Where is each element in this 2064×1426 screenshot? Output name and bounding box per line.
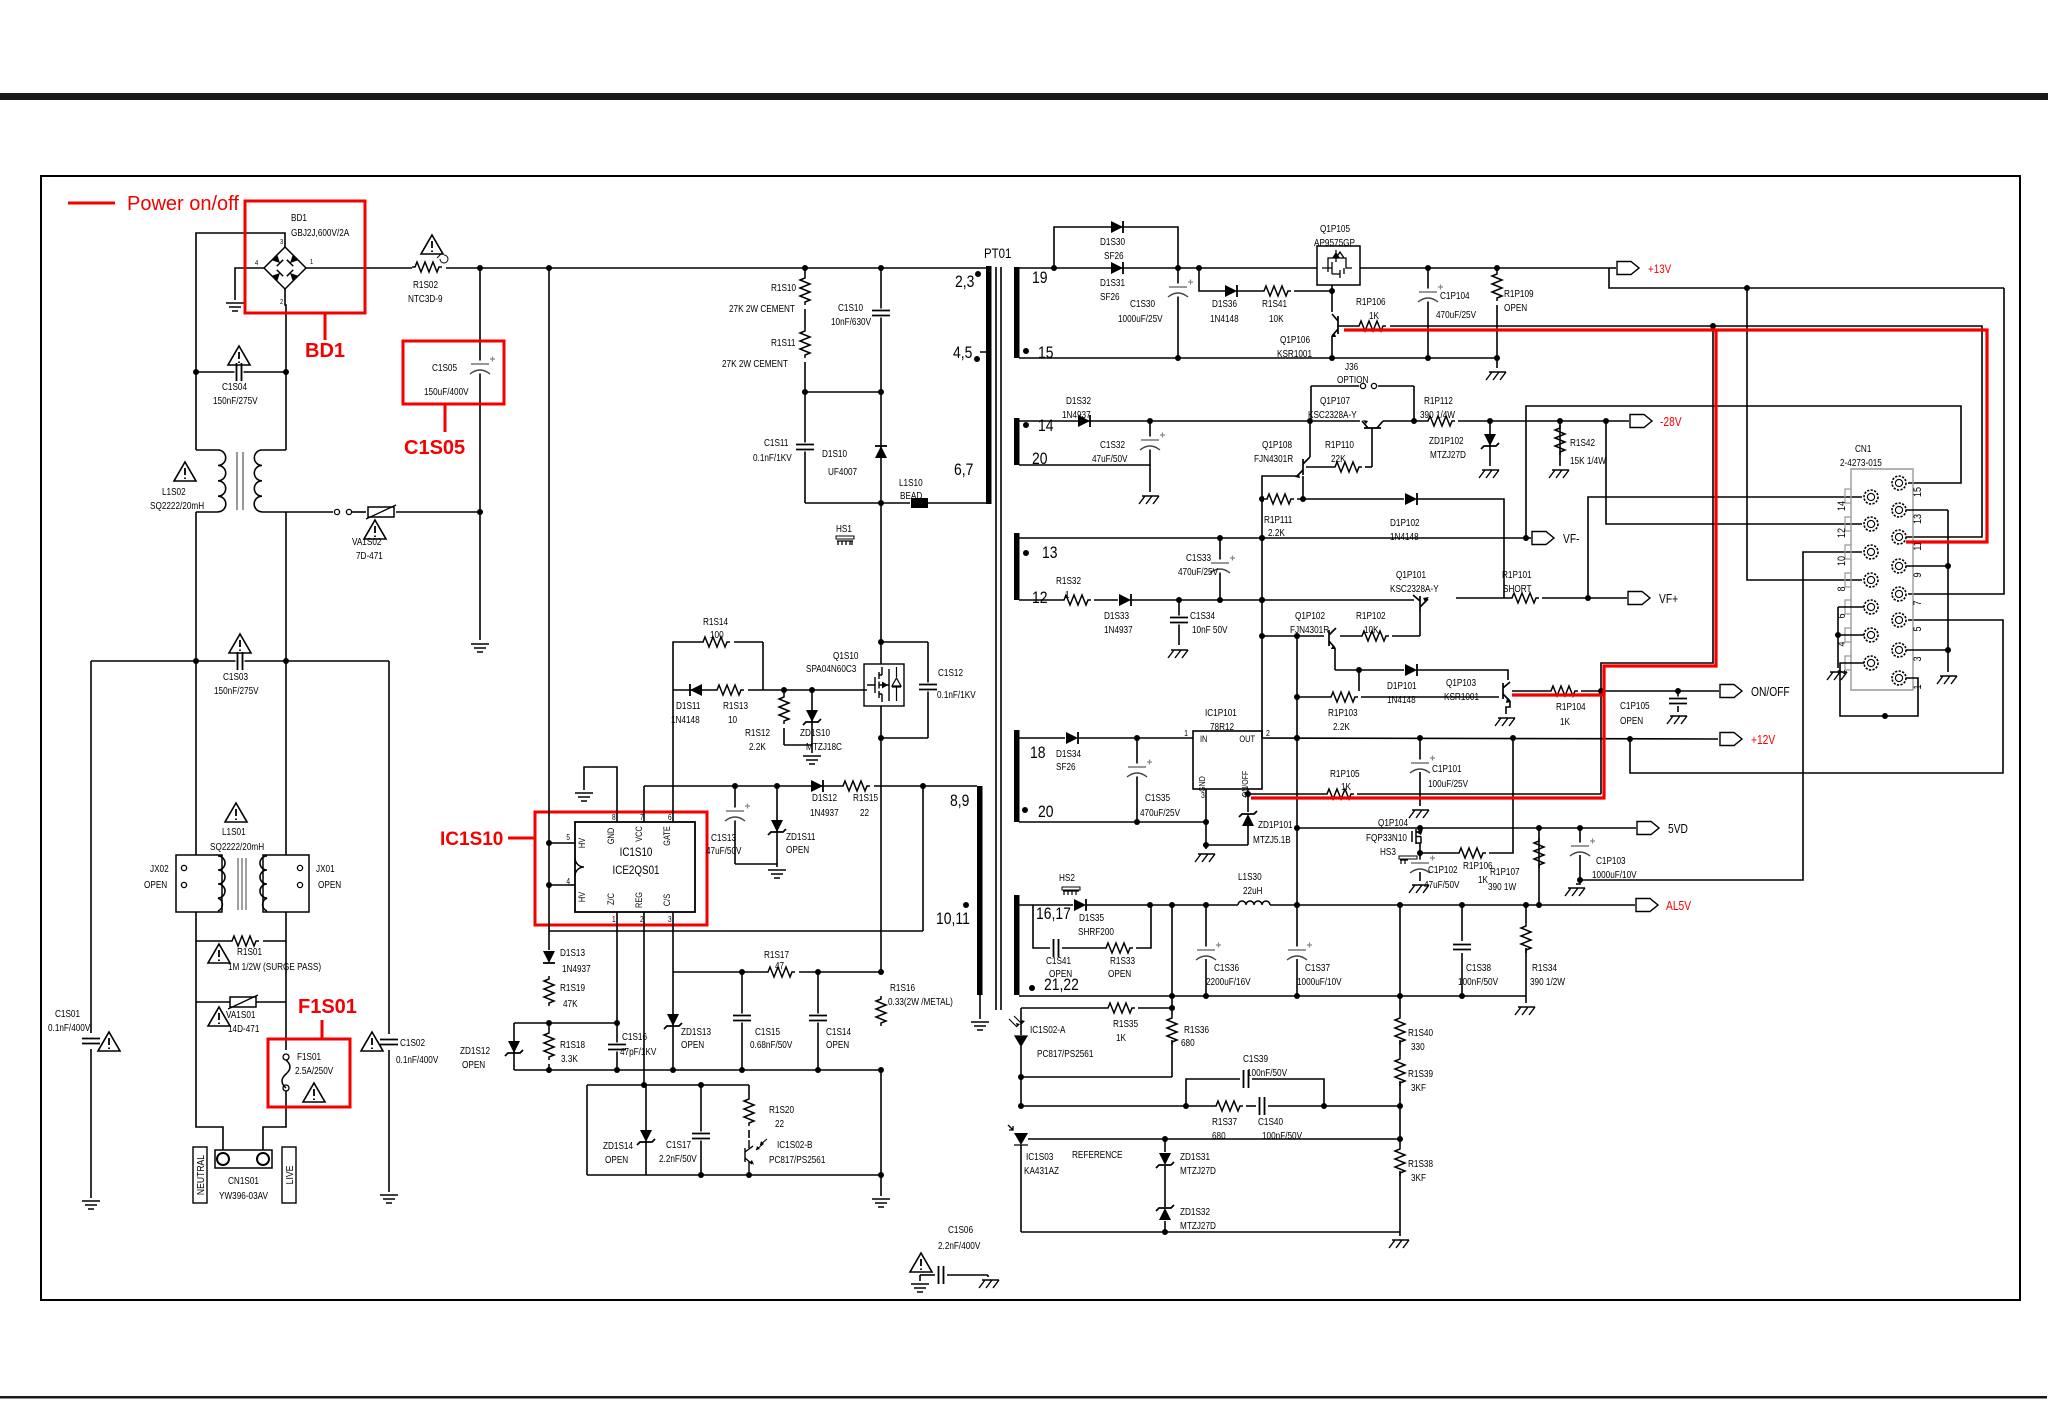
jumper J36 OPTION xyxy=(1311,385,1359,387)
red highlight: Q1P103 emitter stub xyxy=(1512,693,1604,696)
svg-text:OPEN: OPEN xyxy=(681,1039,704,1050)
svg-text:CN1S01: CN1S01 xyxy=(228,1175,259,1186)
svg-text:R1S40: R1S40 xyxy=(1408,1027,1433,1038)
junctions OUT line xyxy=(1294,735,1300,741)
svg-text:470uF/25V: 470uF/25V xyxy=(1178,566,1219,577)
C1S39 bypass loop xyxy=(1186,1079,1240,1106)
junction Q1P104 source xyxy=(1417,850,1423,856)
wire: R1S40 column xyxy=(1399,905,1401,1024)
wire: C1S40 lead xyxy=(1268,1105,1400,1107)
svg-text:22uH: 22uH xyxy=(1243,885,1263,896)
svg-text:VA1S01: VA1S01 xyxy=(226,1009,255,1020)
wire: C1S38 lead xyxy=(1461,953,1463,996)
junctions 5V line xyxy=(1147,902,1153,908)
wire: R1S18 column xyxy=(548,1023,550,1070)
wire: R1S12 ZD1S10 bottom xyxy=(784,745,812,753)
svg-text:150uF/400V: 150uF/400V xyxy=(424,386,469,397)
svg-text:HS1: HS1 xyxy=(836,523,852,534)
svg-text:UF4007: UF4007 xyxy=(828,466,857,477)
wire: C1P105 column xyxy=(1677,691,1679,697)
svg-text:D1P101: D1P101 xyxy=(1387,680,1417,691)
wire: Q1P108 base line xyxy=(1306,466,1333,468)
svg-text:SQ2222/20mH: SQ2222/20mH xyxy=(150,500,204,511)
wire: Q1P107 line xyxy=(1383,420,1426,422)
warning triangle L1S01 xyxy=(225,803,247,822)
ground fb xyxy=(1389,1240,1409,1248)
ground C1P102 xyxy=(1409,885,1429,893)
junction 20b xyxy=(1134,819,1140,825)
svg-text:OPEN: OPEN xyxy=(144,879,167,890)
wire: 19 line xyxy=(1019,267,1317,269)
svg-text:0.68nF/50V: 0.68nF/50V xyxy=(750,1039,793,1050)
svg-text:C1S12: C1S12 xyxy=(938,667,963,678)
svg-text:OPEN: OPEN xyxy=(786,844,809,855)
svg-text:OPEN: OPEN xyxy=(318,879,341,890)
wire: D1S36 branch xyxy=(1199,268,1225,291)
svg-text:C1P105: C1P105 xyxy=(1620,700,1650,711)
warning triangle L1S02 xyxy=(174,462,196,481)
resistor R1P101 xyxy=(1509,592,1543,604)
junctions C1S03 xyxy=(193,658,199,664)
wire: ZD1S12 column xyxy=(513,1023,515,1070)
wire: C1P101 column xyxy=(1419,738,1421,760)
wire: left outer rail b xyxy=(90,1049,92,1198)
svg-text:MTZJ5.1B: MTZJ5.1B xyxy=(1253,834,1291,845)
junction ON/OFF xyxy=(1598,688,1604,694)
svg-text:R1S41: R1S41 xyxy=(1262,298,1287,309)
legend: Power on/off xyxy=(68,202,115,205)
svg-text:1: 1 xyxy=(310,259,314,267)
svg-text:2.2K: 2.2K xyxy=(1333,721,1350,732)
svg-text:1K: 1K xyxy=(1560,716,1570,727)
warning triangle C1S06 xyxy=(910,1253,932,1272)
junction source node xyxy=(878,735,884,741)
svg-text:8: 8 xyxy=(1836,586,1848,591)
wire: snubber bottom to PT01 xyxy=(805,502,910,504)
svg-text:D1S30: D1S30 xyxy=(1100,236,1125,247)
svg-text:C1S17: C1S17 xyxy=(666,1139,691,1150)
svg-text:27K 2W CEMENT: 27K 2W CEMENT xyxy=(729,303,795,314)
capacitor C1S36 xyxy=(1194,947,1218,960)
wire: R1S40-R1S39 link xyxy=(1399,1040,1401,1065)
wire: onoff right rail xyxy=(1906,326,1982,537)
svg-text:OPEN: OPEN xyxy=(605,1154,628,1165)
svg-text:R1S35: R1S35 xyxy=(1113,1018,1138,1029)
wire: pin10 riser xyxy=(1580,552,1862,880)
svg-text:9: 9 xyxy=(1912,572,1924,577)
svg-text:VF+: VF+ xyxy=(1659,593,1678,606)
wire: right outer rail xyxy=(388,661,390,1034)
svg-text:OUT: OUT xyxy=(1239,734,1255,744)
wire: HV rail x549 xyxy=(548,267,550,950)
ground sense xyxy=(872,1199,890,1207)
PT01 secondary bar 16,17/21,22 xyxy=(1014,895,1020,995)
warning triangle VA1S02 xyxy=(364,520,386,539)
svg-text:47uF/50V: 47uF/50V xyxy=(1092,453,1128,464)
svg-text:4,5: 4,5 xyxy=(953,344,972,363)
wire: ZD1S10 column xyxy=(811,690,813,745)
svg-text:6,7: 6,7 xyxy=(954,461,973,480)
wire: Q1P104 source down xyxy=(1419,843,1421,861)
wire: R1P106 line xyxy=(1420,852,1457,854)
svg-text:0.1nF/400V: 0.1nF/400V xyxy=(396,1054,439,1065)
svg-text:-28V: -28V xyxy=(1660,416,1682,429)
svg-text:R1S02: R1S02 xyxy=(413,279,438,290)
wire: zc vertical xyxy=(922,787,924,931)
svg-text:47K: 47K xyxy=(563,998,578,1009)
inductor L1S30 xyxy=(1238,901,1270,905)
warning triangle C1S04 xyxy=(228,346,250,365)
red highlight: on/off to CN1 pin11 xyxy=(1344,330,1987,542)
wire: C1S37 column xyxy=(1296,905,1298,947)
svg-text:R1P103: R1P103 xyxy=(1328,707,1358,718)
svg-text:R1S37: R1S37 xyxy=(1212,1116,1237,1127)
svg-text:L1S02: L1S02 xyxy=(162,486,186,497)
capacitor C1P105 xyxy=(1668,697,1688,706)
diode D1S11 xyxy=(690,684,702,696)
junction pin4 rail xyxy=(1835,632,1841,638)
resistor R1S17 xyxy=(765,966,799,978)
junction C1S35 top xyxy=(1134,735,1140,741)
svg-text:R1P106: R1P106 xyxy=(1463,860,1493,871)
varistor VA1S02 xyxy=(368,507,394,517)
resistor R1S39 xyxy=(1394,1056,1406,1090)
svg-text:4: 4 xyxy=(255,260,259,268)
svg-text:Q1P101: Q1P101 xyxy=(1396,569,1426,580)
wire: right rail below L1S01 xyxy=(285,912,287,1050)
diode D1S31 xyxy=(1111,262,1123,274)
svg-text:2: 2 xyxy=(640,914,644,924)
red box F1S01 xyxy=(268,1039,350,1107)
svg-text:BEAD: BEAD xyxy=(900,490,923,501)
regulator IC1P101 78R12 xyxy=(1193,731,1262,789)
capacitor C1S13 xyxy=(723,808,747,821)
zener ZD1S14 xyxy=(640,1130,652,1142)
wire: C1S06 left xyxy=(920,1274,935,1276)
wire: OUT line +12V xyxy=(1262,738,1718,739)
svg-text:OPEN: OPEN xyxy=(826,1039,849,1050)
junctions 5VD line xyxy=(1417,825,1423,831)
svg-text:1000uF/10V: 1000uF/10V xyxy=(1297,976,1342,987)
capacitor C1S30 xyxy=(1166,284,1190,297)
junctions reg bottom xyxy=(698,1172,704,1178)
svg-text:VA1S02: VA1S02 xyxy=(352,536,381,547)
svg-text:680: 680 xyxy=(1181,1037,1195,1048)
capacitor C1S02 xyxy=(379,1038,399,1047)
wire: 19 line b xyxy=(1360,267,1609,269)
svg-text:R1S42: R1S42 xyxy=(1570,437,1595,448)
ground C1S06 left xyxy=(911,1284,929,1292)
ground below C1S05 rail xyxy=(471,644,489,652)
wire: ZD1S11 column xyxy=(776,786,778,864)
svg-text:390 1/2W: 390 1/2W xyxy=(1530,976,1565,987)
dot sec 2122 xyxy=(1029,985,1035,991)
wire: aux winding to ground xyxy=(979,995,981,1019)
wire: pin8 riser xyxy=(1747,288,1862,580)
svg-text:8: 8 xyxy=(612,812,616,822)
wire: reg top line xyxy=(587,1084,749,1086)
resistor R1S12 xyxy=(778,694,790,728)
capacitor C1S32 xyxy=(1138,437,1162,450)
svg-text:C1S04: C1S04 xyxy=(222,381,247,392)
ground C1P103 xyxy=(1565,888,1585,896)
red highlight: on/off branch to primary xyxy=(1251,330,1716,798)
heatsink HS2 symbol xyxy=(1063,891,1079,895)
svg-text:1N4148: 1N4148 xyxy=(1210,313,1239,324)
wire: R1P103 to Q1P103 base xyxy=(1361,696,1499,698)
PT01 secondary bar 19/15 xyxy=(1014,267,1020,358)
ground C1S02 xyxy=(380,1195,398,1203)
junctions ref line xyxy=(1162,1136,1168,1142)
wire: bridge top to left rail xyxy=(196,233,285,450)
capacitor C1S05 xyxy=(468,361,492,374)
svg-text:22: 22 xyxy=(775,1118,784,1129)
wire: VF- arrow feed xyxy=(1526,537,1531,539)
NEUTRAL tag xyxy=(193,1147,207,1203)
wire: +13V to right rail xyxy=(1609,268,2004,288)
resistor R1S19 xyxy=(543,976,555,1010)
output arrow VF- xyxy=(1532,532,1554,545)
wire: R1P102 to Q1P101 base xyxy=(1392,635,1420,637)
wire: C1S06 right down xyxy=(987,1275,989,1277)
ground under ZD1S11 xyxy=(768,870,786,878)
red box BD1 xyxy=(245,201,365,313)
svg-text:8,9: 8,9 xyxy=(950,792,969,811)
svg-text:0.1nF/1KV: 0.1nF/1KV xyxy=(937,689,976,700)
svg-text:FJN4301R: FJN4301R xyxy=(1254,453,1293,464)
svg-text:3: 3 xyxy=(668,914,672,924)
wire: R1P103 line xyxy=(1297,696,1329,698)
capacitor C1S39 xyxy=(1242,1069,1251,1089)
svg-text:MTZJ27D: MTZJ27D xyxy=(1430,449,1466,460)
svg-text:PC817/PS2561: PC817/PS2561 xyxy=(1037,1048,1093,1059)
resistor R1P104 xyxy=(1548,685,1582,697)
wire: R1S32 to D1S33 xyxy=(1094,599,1118,601)
svg-text:CN1: CN1 xyxy=(1855,443,1871,454)
svg-text:MTZJ27D: MTZJ27D xyxy=(1180,1165,1216,1176)
wire: zd chain b xyxy=(1164,1166,1166,1207)
capacitor C1S01 xyxy=(81,1037,101,1046)
svg-text:D1S13: D1S13 xyxy=(560,947,585,958)
svg-text:1: 1 xyxy=(612,914,616,924)
svg-text:16,17: 16,17 xyxy=(1036,905,1071,924)
wire: 12 line b xyxy=(1131,599,1414,601)
svg-text:R1S33: R1S33 xyxy=(1110,955,1135,966)
svg-text:R1P111: R1P111 xyxy=(1264,514,1292,525)
junctions snubber xyxy=(802,389,808,395)
wire: Q1P101 base down xyxy=(1419,612,1421,636)
warning triangle C1S03 xyxy=(229,634,251,653)
svg-text:HV: HV xyxy=(577,891,587,902)
resistor R1S16 xyxy=(875,996,887,1030)
svg-text:R1S17: R1S17 xyxy=(764,949,789,960)
wire: Q1P102 emitter down xyxy=(1334,648,1336,670)
svg-text:JX02: JX02 xyxy=(150,863,169,874)
wire: 16-17 line b xyxy=(1086,904,1238,906)
wire: IC pin4 xyxy=(568,884,575,886)
svg-text:R1S36: R1S36 xyxy=(1184,1024,1209,1035)
svg-text:2,3: 2,3 xyxy=(955,273,974,292)
transistor Q1P103 xyxy=(1503,682,1510,701)
wire: x1297 rail xyxy=(1296,636,1298,905)
svg-text:47: 47 xyxy=(775,960,784,971)
warning triangle R1S01 xyxy=(208,944,230,963)
svg-text:2: 2 xyxy=(1266,728,1270,738)
wire: Q1P102 line b xyxy=(1340,635,1360,637)
wire: pin6 stub xyxy=(1838,606,1864,608)
warning triangle C1S01 xyxy=(98,1032,120,1051)
svg-text:10K: 10K xyxy=(1269,313,1284,324)
svg-text:15K 1/4W: 15K 1/4W xyxy=(1570,455,1606,466)
wire: right rail below bridge xyxy=(285,372,287,450)
PT01 aux winding 8,9/10,11 bar xyxy=(977,786,983,995)
svg-text:R1S10: R1S10 xyxy=(771,282,796,293)
junction C1P103 bottom xyxy=(1577,877,1583,883)
wire: Q1P106 emitter down xyxy=(1331,336,1333,358)
ground CN1 left rail xyxy=(1827,672,1847,680)
svg-text:R1S01: R1S01 xyxy=(237,946,262,957)
PT01 secondary bar 14/20 xyxy=(1014,418,1020,465)
diode D1S10 xyxy=(875,446,887,458)
junctions 15 line xyxy=(1175,355,1181,361)
svg-text:C1P101: C1P101 xyxy=(1432,763,1462,774)
svg-text:L1S30: L1S30 xyxy=(1238,871,1262,882)
wire: C1S12 top xyxy=(881,641,928,643)
wire: VF+ line xyxy=(1456,597,1510,599)
svg-text:D1S10: D1S10 xyxy=(822,448,847,459)
svg-text:1N4148: 1N4148 xyxy=(1390,531,1419,542)
resistor R1S33 xyxy=(1103,942,1137,954)
svg-text:C1S01: C1S01 xyxy=(55,1008,80,1019)
svg-text:150nF/275V: 150nF/275V xyxy=(214,685,259,696)
junctions 21-22 line xyxy=(1169,993,1175,999)
wire: ON/OFF pin down xyxy=(1247,789,1249,812)
svg-text:FQP33N10: FQP33N10 xyxy=(1366,832,1407,843)
capacitor C1S06 sym xyxy=(937,1265,946,1285)
capacitor C1S12 xyxy=(918,683,938,692)
optocoupler IC1S02-B xyxy=(745,1140,753,1175)
schematic frame xyxy=(41,176,2020,1300)
wire: Q1P105 gate down xyxy=(1331,285,1333,312)
svg-text:SHORT: SHORT xyxy=(1503,583,1532,594)
resistor R1P103 xyxy=(1328,691,1362,703)
connector CN1S01 xyxy=(215,1150,272,1168)
wire: right rail pin7 xyxy=(1908,288,2004,594)
svg-text:SPA04N60C3: SPA04N60C3 xyxy=(806,663,856,674)
svg-text:SQ2222/20mH: SQ2222/20mH xyxy=(210,841,264,852)
junction 1359 xyxy=(1356,667,1362,673)
wire: drain to Q1S10 xyxy=(880,503,882,664)
junction drain node xyxy=(878,500,884,506)
wire: fb mid line xyxy=(1021,1105,1214,1107)
wire: C1S10 column xyxy=(880,267,882,392)
svg-text:C1S35: C1S35 xyxy=(1145,792,1170,803)
wire: C1P103 column xyxy=(1579,828,1581,843)
svg-text:C1S15: C1S15 xyxy=(755,1026,780,1037)
svg-text:C1S14: C1S14 xyxy=(826,1026,851,1037)
svg-text:J36: J36 xyxy=(1345,361,1358,372)
svg-text:KSC2328A-Y: KSC2328A-Y xyxy=(1308,409,1357,420)
wire: +13V arrow feed xyxy=(1609,267,1616,269)
svg-text:2.2K: 2.2K xyxy=(749,741,766,752)
junction C1S12 top xyxy=(878,639,884,645)
wire: R1P112 to -28V xyxy=(1458,420,1604,422)
diode D1P101 xyxy=(1405,664,1417,676)
svg-text:VF-: VF- xyxy=(1563,533,1580,546)
resistor R1P112 xyxy=(1425,415,1459,427)
zener ZD1P102 xyxy=(1484,434,1496,446)
snubber C1S41 R1S33 loop xyxy=(1033,905,1050,948)
svg-text:C1S03: C1S03 xyxy=(223,671,248,682)
svg-text:BD1: BD1 xyxy=(291,212,307,223)
wire: C1P101 gnd lead xyxy=(1419,772,1421,806)
wire: Q1P102 line xyxy=(1262,635,1324,637)
svg-text:KSR1001: KSR1001 xyxy=(1444,691,1479,702)
svg-text:AL5V: AL5V xyxy=(1666,900,1691,913)
svg-text:3KF: 3KF xyxy=(1411,1082,1426,1093)
wire: zd chain c xyxy=(1164,1221,1166,1232)
svg-text:IN: IN xyxy=(1200,734,1207,744)
ground PT01 aux xyxy=(971,1022,989,1030)
svg-text:10nF/630V: 10nF/630V xyxy=(831,316,872,327)
svg-text:C1S36: C1S36 xyxy=(1214,962,1239,973)
svg-text:PT01: PT01 xyxy=(984,245,1011,261)
wire: R1S37 to C1S40 xyxy=(1246,1105,1256,1107)
svg-text:OPTION: OPTION xyxy=(1337,374,1368,385)
resistor R1S10 xyxy=(799,275,811,309)
svg-text:100: 100 xyxy=(710,629,724,640)
svg-text:C1S37: C1S37 xyxy=(1305,962,1330,973)
zener ZD1S31 xyxy=(1159,1153,1171,1165)
svg-text:JX01: JX01 xyxy=(316,863,335,874)
resistor R1S13 xyxy=(714,684,748,696)
wire: R1S02 to PT01 primary xyxy=(446,267,986,269)
resistor R1S11 xyxy=(799,328,811,362)
junction ref bottom xyxy=(1162,1229,1168,1235)
MOSFET Q1P105 AP9575GP xyxy=(1317,246,1360,285)
wire: R1P111 to D1P102 xyxy=(1297,498,1404,500)
wire: D1P101 to Q1P103 xyxy=(1417,670,1508,680)
svg-text:100nF/50V: 100nF/50V xyxy=(1247,1067,1288,1078)
wire: R1P106 right riser xyxy=(1489,738,1513,853)
PT01 secondary bar 13/12 xyxy=(1014,533,1020,600)
diode D1S34 xyxy=(1066,732,1078,744)
svg-text:27K 2W CEMENT: 27K 2W CEMENT xyxy=(722,358,788,369)
wire: VF+ line b xyxy=(1542,597,1627,599)
wire: R1S35 line xyxy=(1021,1007,1106,1009)
svg-text:1K: 1K xyxy=(1369,310,1379,321)
capacitor C1S17 xyxy=(691,1132,711,1141)
wire: ZD1P101 bottom link xyxy=(1206,844,1248,846)
wire: D1S30 loop xyxy=(1054,227,1178,268)
svg-text:3: 3 xyxy=(1201,790,1205,800)
svg-text:10K: 10K xyxy=(1364,624,1379,635)
PT01 primary dots xyxy=(975,271,981,277)
svg-text:R1S18: R1S18 xyxy=(560,1039,585,1050)
wire: R1S01 line xyxy=(196,940,286,942)
svg-text:MTZJ27D: MTZJ27D xyxy=(1180,1220,1216,1231)
resistor R1S38 xyxy=(1394,1146,1406,1180)
PT01 primary winding 2,3/4,5/6,7 bar xyxy=(986,266,992,504)
svg-text:3KF: 3KF xyxy=(1411,1172,1426,1183)
bridge rectifier BD1 xyxy=(264,247,306,289)
output arrow -28V xyxy=(1630,415,1652,428)
svg-text:6: 6 xyxy=(668,812,672,822)
wire: pin9 stub xyxy=(1906,565,1948,567)
wire: C1S06 left down xyxy=(919,1275,921,1281)
wire: C1S13 column xyxy=(734,786,736,864)
PT01 aux dot xyxy=(963,902,969,908)
